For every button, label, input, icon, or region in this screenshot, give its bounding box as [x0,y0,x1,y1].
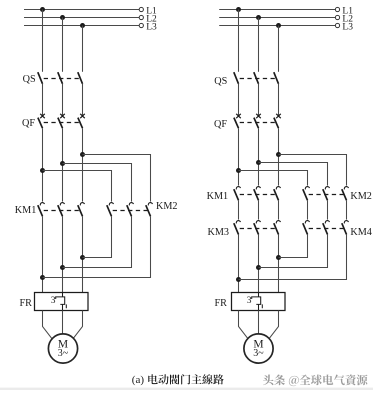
contactor KM2 contact pole3 (right) [344,187,348,190]
circuit breaker QF (right) pole3 [276,114,281,118]
circuit breaker QF (left) pole1 [40,114,45,118]
wire phase1 bus to QS (right) [238,10,240,72]
wire phase1 to KM2 pole1 (left) [43,171,112,202]
wire phase3 FR to motor (left) [72,311,83,341]
disconnect switch QS (left) pole1 [38,72,43,84]
wire phase2 QF to KM1 (left) [62,128,64,201]
wire L2 bus (right circuit) [219,17,335,19]
wire phase3 to KM2 pole3 (left) [83,155,151,202]
wire phase2 bus to QS (right) [258,18,260,72]
wire KM4 pole2 return to phase2 (right) [259,234,328,267]
contactor KM4 contact pole2 (right) [325,221,329,224]
svg-text:KM3: KM3 [208,227,230,238]
svg-text:KM2: KM2 [350,191,372,202]
contactor KM4 contact pole1 (right) [305,221,309,224]
junction dot L2/phase2 (right) [256,15,261,20]
FR heater element symbol (left) [56,293,67,311]
junction dot phase2 branch (left top) [60,161,65,166]
junction dot phase1 return (left bottom) [40,275,45,280]
svg-text:QF: QF [214,119,227,130]
contactor KM2 contact pole1 (left) [109,203,113,206]
contactor KM1 contact pole3 (left) [80,203,84,206]
contactor KM1 contact pole1 (right) [236,187,240,190]
QF linkage dashed (right) [240,122,278,124]
svg-text:KM1: KM1 [207,191,229,202]
wire phase3 QF to KM1 (right) [278,128,280,185]
wire L1 bus (right circuit) [219,9,335,11]
contactor KM1 contact pole3 (right) [276,187,280,190]
svg-text:KM2: KM2 [156,201,178,212]
junction dot phase2 branch (right top) [256,160,261,165]
wire L3 bus (left circuit) [24,25,139,27]
KM1 linkage dashed (right) [240,194,278,196]
motor M 3~ (left) [48,334,77,363]
thermal relay FR box (left) [35,293,89,311]
wire L2 bus (left circuit) [24,17,139,19]
junction dot phase2 return (left bottom) [60,265,65,270]
svg-text:QS: QS [23,74,36,85]
caption 电动阀门主线路 [148,374,157,384]
contactor KM2 contact pole3 (left) [148,203,152,206]
circuit breaker QF (left) pole3 [80,114,85,118]
svg-text:KM1: KM1 [15,205,37,216]
svg-text:3: 3 [247,296,252,306]
wire KM2 pole2 return to phase2 (left) [63,216,132,267]
FR heater element symbol (right) [252,293,263,311]
KM1 linkage dashed (left) [44,210,82,212]
wire phase1 FR to motor (right) [239,311,250,341]
disconnect switch QS (right) pole3 [274,72,279,84]
wire KM4 pole1 return to phase3 (right) [279,234,308,257]
wire phase3 bus to QS (right) [278,26,280,72]
junction dot L1/phase1 (right) [236,7,241,12]
thermal relay FR box (right) [232,293,286,311]
junction dot phase1 branch (right top) [236,168,241,173]
wire phase3 FR to motor (right) [268,311,279,341]
svg-text:L3: L3 [146,23,157,33]
wire L1 bus (left circuit) [24,9,139,11]
QF linkage dashed (left) [44,122,82,124]
terminal L1 (left) [139,7,143,11]
wire phase1 KM1 to KM3 (right) [238,200,240,219]
wire KM2 pole2 to KM4 pole2 (right) [327,200,329,219]
contactor KM1 contact pole2 (right) [256,187,260,190]
wire phase2 to KM2 pole2 (right) [259,163,328,186]
terminal L1 (right) [335,7,339,11]
junction dot L3/phase3 (right) [276,23,281,28]
wire phase1 FR to motor (left) [43,311,54,341]
terminal L3 (right) [335,23,339,27]
wire phase1 QS to QF (left) [42,84,44,116]
circuit breaker QF (right) pole2 [256,114,261,118]
wire KM2 pole3 to KM4 pole3 (right) [346,200,348,219]
junction dot phase3 return (right bottom) [276,255,281,260]
junction dot L3/phase3 (left) [80,23,85,28]
contactor KM2 contact pole2 (left) [129,203,133,206]
wire phase3 QS to QF (right) [278,84,280,116]
contactor KM1 contact pole1 (left) [40,203,44,206]
scan artifact band at bottom edge [0,388,373,390]
junction dot phase3 return (left bottom) [80,255,85,260]
disconnect switch QS (right) pole2 [254,72,259,84]
svg-text:QS: QS [214,76,227,87]
wire phase1 KM3 to FR (right) [238,234,240,292]
svg-text:KM4: KM4 [350,227,372,238]
svg-text:QF: QF [22,118,35,129]
wire phase2 bus to QS (left) [62,18,64,72]
wire phase3 KM1 to FR (left) [82,216,84,292]
wire phase2 to KM2 pole2 (left) [63,164,132,202]
circuit breaker QF (left) pole2 [60,114,65,118]
QS linkage dashed (right) [240,78,278,80]
wire phase2 FR to motor (right) [258,311,260,335]
contactor KM3 contact pole3 (right) [276,221,280,224]
wire KM4 pole3 return to phase1 (right) [239,234,347,279]
junction dot L2/phase2 (left) [60,15,65,20]
wire phase2 QS to QF (right) [258,84,260,116]
wire phase2 QF to KM1 (right) [258,128,260,185]
QS linkage dashed (left) [44,78,82,80]
wire phase3 QF to KM1 (left) [82,128,84,201]
contactor KM3 contact pole2 (right) [256,221,260,224]
junction dot L1/phase1 (left) [40,7,45,12]
disconnect switch QS (left) pole3 [78,72,83,84]
wire phase1 bus to QS (left) [42,10,44,72]
junction dot phase1 branch (left top) [40,168,45,173]
junction dot phase3 branch (left top) [80,152,85,157]
terminal L3 (left) [139,23,143,27]
wire L3 bus (right circuit) [219,25,335,27]
contactor KM3 contact pole1 (right) [236,221,240,224]
svg-text:3~: 3~ [58,348,69,359]
wire phase1 KM1 to FR (left) [42,216,44,292]
wire phase2 FR to motor (left) [62,311,64,335]
svg-text:FR: FR [215,298,228,309]
wire phase2 QS to QF (left) [62,84,64,116]
junction dot phase2 return (right bottom) [256,265,261,270]
motor M 3~ (right) [244,334,273,363]
KM2 linkage dashed (right) [309,194,346,196]
wire phase1 QF to KM1 (right) [238,128,240,185]
wire phase1 QS to QF (right) [238,84,240,116]
contactor KM2 contact pole1 (right) [305,187,309,190]
wire phase3 to KM2 pole3 (right) [279,155,347,186]
svg-text:3: 3 [51,296,56,306]
wire phase2 KM1 to KM3 (right) [258,200,260,219]
contactor KM1 contact pole2 (left) [60,203,64,206]
wire phase1 to KM2 pole1 (right) [239,171,308,186]
wire KM2 pole1 to KM4 pole1 (right) [307,200,309,219]
wire phase3 KM1 to KM3 (right) [278,200,280,219]
disconnect switch QS (right) pole1 [234,72,239,84]
contactor KM2 contact pole2 (right) [325,187,329,190]
svg-text:L3: L3 [342,23,353,33]
contactor KM4 contact pole3 (right) [344,221,348,224]
KM2 linkage dashed (left) [113,210,150,212]
svg-text:FR: FR [20,298,33,309]
junction dot phase1 return (right bottom) [236,277,241,282]
junction dot phase3 branch (right top) [276,152,281,157]
disconnect switch QS (left) pole2 [58,72,63,84]
KM3 linkage dashed (right) [240,228,278,230]
watermark 头条@全球电气资源 [263,375,274,386]
wire phase3 bus to QS (left) [82,26,84,72]
svg-text:(a): (a) [132,374,145,386]
KM4 linkage dashed (right) [309,228,346,230]
terminal L2 (left) [139,15,143,19]
wire phase2 KM3 to FR (right) [258,234,260,292]
wire phase3 QS to QF (left) [82,84,84,116]
wire phase2 KM1 to FR (left) [62,216,64,292]
wire phase1 QF to KM1 (left) [42,128,44,201]
svg-text:3~: 3~ [253,348,264,359]
wire KM2 pole1 return to phase3 (left) [83,216,112,257]
circuit breaker QF (right) pole1 [236,114,241,118]
wire KM2 pole3 return to phase1 (left) [43,216,151,277]
terminal L2 (right) [335,15,339,19]
wire phase3 KM3 to FR (right) [278,234,280,292]
